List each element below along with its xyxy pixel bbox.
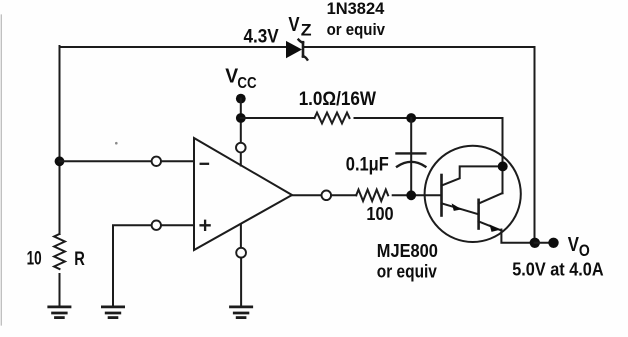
wire: VCC pin down to op-amp xyxy=(240,99,242,143)
svg-text:1N3824: 1N3824 xyxy=(327,0,385,18)
wire: pin circle to op-amp minus input xyxy=(161,160,194,162)
node: junction dot rail/capacitor xyxy=(406,113,416,123)
wire: R to ground xyxy=(59,274,61,306)
speck artifact xyxy=(115,142,118,145)
node: junction dot capacitor/base xyxy=(406,190,416,200)
pin circle: non-inverting input xyxy=(152,221,161,230)
svg-text:0.1μF: 0.1μF xyxy=(346,154,389,175)
node: junction dot VCC / 1 ohm rail xyxy=(236,113,246,123)
op-amp minus sign xyxy=(201,163,208,165)
wire: inverting input from junction to pin circle xyxy=(60,160,152,162)
wire: 100 ohm to Q1 base xyxy=(393,194,441,196)
svg-text:Z: Z xyxy=(301,21,312,40)
node: VCC terminal dot xyxy=(236,94,246,104)
wire: left vertical from top corner down to resistor R xyxy=(59,46,61,234)
transistor Q1 emitter with arrow xyxy=(442,203,479,214)
wire: 1 ohm rail right segment to collector corner xyxy=(355,118,503,193)
node: junction dot emitter/zener rail xyxy=(530,238,540,248)
pin circle: inverting input xyxy=(152,157,161,166)
svg-text:100: 100 xyxy=(366,204,393,224)
zener diode VZ 1N3824 xyxy=(286,40,307,60)
wire: VO stub xyxy=(535,242,549,244)
resistor R zigzag (10 ohm) xyxy=(54,234,65,269)
wire: op-amp output to pin circle xyxy=(292,194,322,196)
capacitor 0.1uF xyxy=(397,153,426,166)
svg-text:4.3V: 4.3V xyxy=(244,27,279,48)
transistor Q2 emitter with arrow xyxy=(479,221,502,232)
transistor Q2 base bar xyxy=(477,200,480,229)
wire: V+ pin circle to triangle edge xyxy=(240,153,242,166)
node: collector junction dot xyxy=(498,161,508,171)
svg-text:5.0V at 4.0A: 5.0V at 4.0A xyxy=(512,260,603,280)
op-amp U1 xyxy=(194,138,292,250)
op-amp plus sign xyxy=(201,221,210,230)
wire: output pin to 100 ohm resistor xyxy=(331,194,356,196)
wire: zener cathode to top-right corner, down to VO xyxy=(303,47,535,240)
transistor MJE800 Darlington envelope circle xyxy=(425,146,521,242)
svg-text:or equiv: or equiv xyxy=(327,20,386,39)
transistor Q1 collector xyxy=(442,166,501,185)
svg-text:or equiv: or equiv xyxy=(377,262,437,282)
wire: op-amp V- pin from triangle edge xyxy=(240,224,242,248)
node: VO terminal dot xyxy=(548,238,558,248)
page edge artifact line xyxy=(0,15,2,325)
wire: V- pin down to ground xyxy=(240,258,242,306)
svg-text:1.0Ω/16W: 1.0Ω/16W xyxy=(299,88,377,110)
transistor Q1 base bar xyxy=(440,175,443,216)
resistor 1.0ohm/16W xyxy=(315,113,350,124)
svg-text:CC: CC xyxy=(237,75,256,92)
pin circle: op-amp V+ pin xyxy=(236,143,246,153)
wire: capacitor branch vertical xyxy=(410,118,412,195)
svg-text:V: V xyxy=(568,234,580,256)
transistor Q2 collector xyxy=(479,193,503,204)
wire: non-inverting input from op-amp to pin circle xyxy=(161,224,194,226)
pin circle: op-amp output xyxy=(322,191,332,201)
wire: top feedback rail from left corner to zener anode xyxy=(60,46,287,48)
svg-text:MJE800: MJE800 xyxy=(377,241,438,261)
pin circle: op-amp V- pin xyxy=(236,248,246,258)
ground symbol left xyxy=(49,307,70,318)
node: junction dot left rail / inverting input xyxy=(55,156,65,166)
svg-text:O: O xyxy=(579,241,590,260)
ground symbol middle xyxy=(102,307,123,318)
resistor 100 xyxy=(356,190,388,201)
svg-text:10: 10 xyxy=(27,249,42,270)
svg-text:V: V xyxy=(288,14,300,36)
wire: 1 ohm rail left segment xyxy=(241,117,315,119)
svg-text:R: R xyxy=(74,249,85,270)
ground symbol op-amp xyxy=(231,307,252,318)
wire: emitter down and right to VO xyxy=(501,230,530,243)
wire: plus input to ground leg xyxy=(113,225,152,305)
